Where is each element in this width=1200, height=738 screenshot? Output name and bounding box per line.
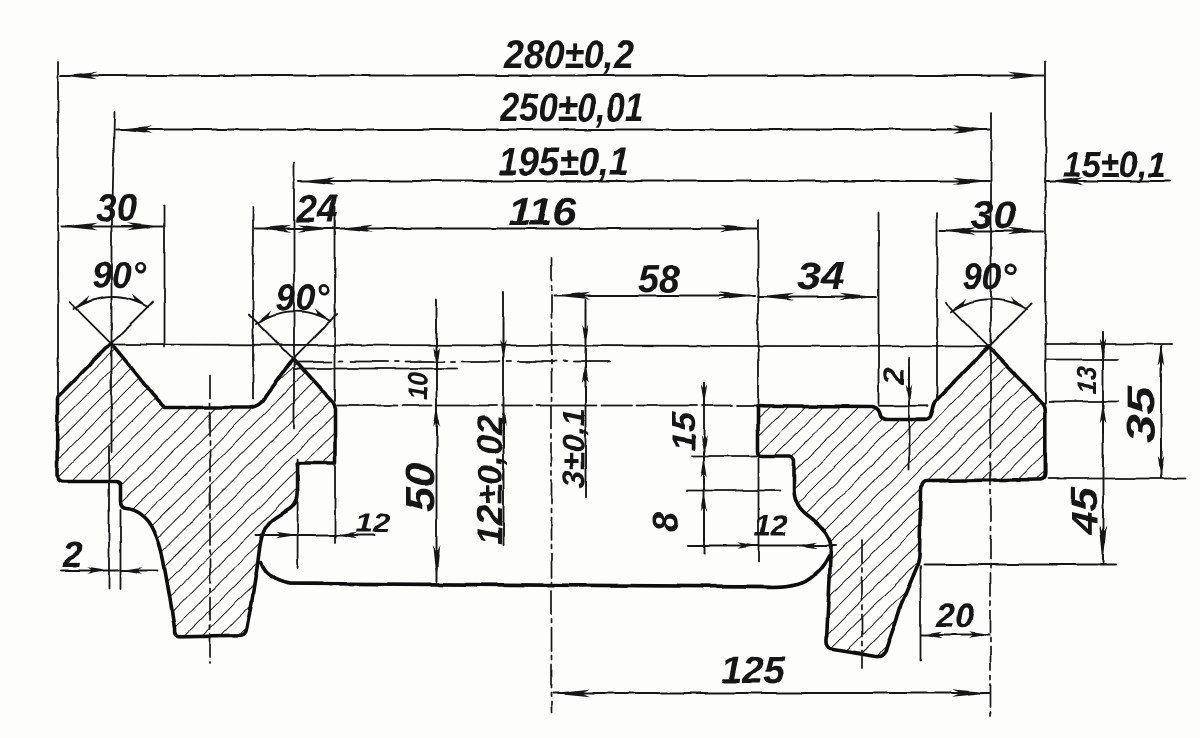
angle dimension 90 degree middle — [249, 311, 337, 358]
dimension 280±0,2 line — [61, 75, 1045, 77]
wire: 250/195 right extension x=991 — [990, 113, 992, 345]
dimension 35 hairline x=1161 — [1160, 346, 1162, 478]
svg-text:15: 15 — [665, 411, 702, 451]
dimension 3±0,1 hairline x=585.5 — [585, 300, 587, 497]
svg-text:10: 10 — [403, 372, 433, 400]
svg-text:12: 12 — [355, 508, 391, 538]
dimension 12 left line — [256, 534, 375, 536]
labels — [498, 33, 1166, 185]
dimension 195±0,1 line — [299, 180, 990, 182]
dimension 13 and 45 hairline x=1103 — [1102, 332, 1104, 563]
wire: vertical through second V tip x=294 — [293, 162, 295, 428]
node: right V tip axis x=990.5 — [990, 425, 992, 716]
wire: datum line C y=405.5 — [337, 405, 756, 407]
left part cross-section outline — [57, 344, 335, 637]
svg-text:3±0,1: 3±0,1 — [556, 408, 591, 488]
wire: line B y=361.5 — [294, 361, 610, 363]
wire: right slope base line y=401.5 — [1049, 401, 1118, 403]
svg-text:30: 30 — [971, 194, 1016, 237]
svg-text:90°: 90° — [92, 255, 146, 296]
angle dimension 90 degree left — [70, 297, 153, 344]
dimension lines with arrows — [61, 76, 1171, 694]
svg-text:125: 125 — [721, 650, 786, 692]
svg-text:12: 12 — [754, 508, 788, 543]
svg-text:45: 45 — [1064, 485, 1105, 536]
wire: horizontal line A through V tips y=346 — [111, 345, 989, 347]
dimension 125 line — [554, 692, 990, 694]
dimension 116 line — [337, 228, 757, 230]
wire: 116 right extension x=758 — [757, 220, 759, 403]
svg-text:35: 35 — [1120, 384, 1163, 443]
node: left leg axis x=210 — [209, 375, 211, 663]
angle dimension 90 degree right — [946, 299, 1032, 346]
svg-text:12±0,02: 12±0,02 — [471, 414, 510, 545]
svg-text:90°: 90° — [962, 256, 1016, 297]
svg-text:8: 8 — [645, 512, 686, 532]
svg-text:90°: 90° — [276, 277, 329, 318]
dimension 12±0,02 hairline x=503.5 — [503, 292, 505, 545]
wire: groove surface reference y=405.8 — [879, 405, 928, 407]
svg-text:2: 2 — [62, 534, 83, 575]
wire: 20 left extension x=920.5 — [920, 566, 922, 660]
wire: extension below part right edge x=335 for dim 12 — [334, 463, 336, 543]
svg-text:13: 13 — [1071, 366, 1102, 394]
wire: 250 left extension x=114.5 — [113, 112, 115, 206]
dimension 24 line — [255, 228, 334, 230]
dimension 15±0,1 line — [1047, 180, 1170, 182]
svg-text:20: 20 — [935, 597, 974, 635]
svg-text:58: 58 — [638, 258, 680, 301]
svg-text:250±0,01: 250±0,01 — [499, 86, 644, 130]
dimension 2 right hairline x=909 — [908, 358, 910, 470]
dimension 30 right line — [940, 230, 1044, 232]
node: part middle axis x=551.5 — [551, 258, 553, 712]
dimension 250±0,01 line — [116, 129, 990, 131]
wire: 24 left extension x=253 — [252, 207, 254, 399]
dimension 58 line — [554, 295, 755, 297]
svg-text:15±0,1: 15±0,1 — [1063, 144, 1166, 185]
wire: extension x=758.5 below step for dim 12 — [758, 458, 760, 562]
wire: 24/116 extension x=335 down to part corner — [334, 207, 336, 401]
svg-text:280±0,2: 280±0,2 — [503, 33, 634, 77]
wire: 2-left extension x=120.5 — [120, 510, 122, 589]
wire: reference line y=490.5 — [687, 490, 780, 492]
center lines dash-dot — [210, 258, 991, 716]
dimension 10 and 50 hairline x=436.5 — [436, 300, 438, 582]
dimension 2 left line — [61, 570, 158, 572]
wire: right V tip axis solid upper part — [990, 348, 992, 425]
node: right leg axis x=862 — [861, 540, 863, 668]
wire: 45 bottom reference y=564.5 — [924, 564, 1116, 566]
wire: 30-left right extension x=164.5 — [164, 206, 166, 347]
dimension 30 left line — [62, 226, 164, 228]
dimension 15 and 8 hairline x=704 — [703, 383, 705, 553]
wire: line B' y=368.5 — [294, 368, 457, 370]
wire: left edge extension x=58 — [57, 62, 59, 394]
dimension 34 line — [758, 296, 877, 298]
wire: extension of step x=297.6 for dim 12 — [297, 459, 299, 568]
svg-text:34: 34 — [797, 255, 845, 298]
wire: 34 right extension x=878.5 — [878, 212, 880, 404]
right part cross-section outline — [758, 347, 1046, 657]
dimension 12 right line — [688, 545, 836, 547]
wire: 2-left extension x=109 — [108, 446, 110, 589]
wire: line B right extension y=360 — [1046, 359, 1118, 361]
thin extension and reference lines — [58, 62, 1186, 660]
web bottom surface line D with end fillets — [261, 556, 829, 587]
svg-text:195±0,1: 195±0,1 — [498, 140, 629, 184]
svg-text:2: 2 — [878, 367, 911, 385]
dimension 20 line — [922, 634, 990, 636]
svg-text:24: 24 — [295, 188, 338, 231]
svg-text:116: 116 — [508, 191, 576, 234]
wire: vertical through left V tip x=111.5 — [111, 203, 113, 452]
wire: 30-right left extension x=937 — [936, 213, 938, 399]
wire: line A right extension y=344 — [1045, 343, 1172, 345]
wire: step reference y=453 — [692, 455, 757, 457]
wire: right bottom edge extension y=478.5 — [1048, 478, 1186, 480]
svg-text:30: 30 — [96, 187, 137, 230]
wire: 280 right extension x=1045.5 — [1045, 62, 1047, 404]
svg-text:50: 50 — [397, 463, 443, 512]
